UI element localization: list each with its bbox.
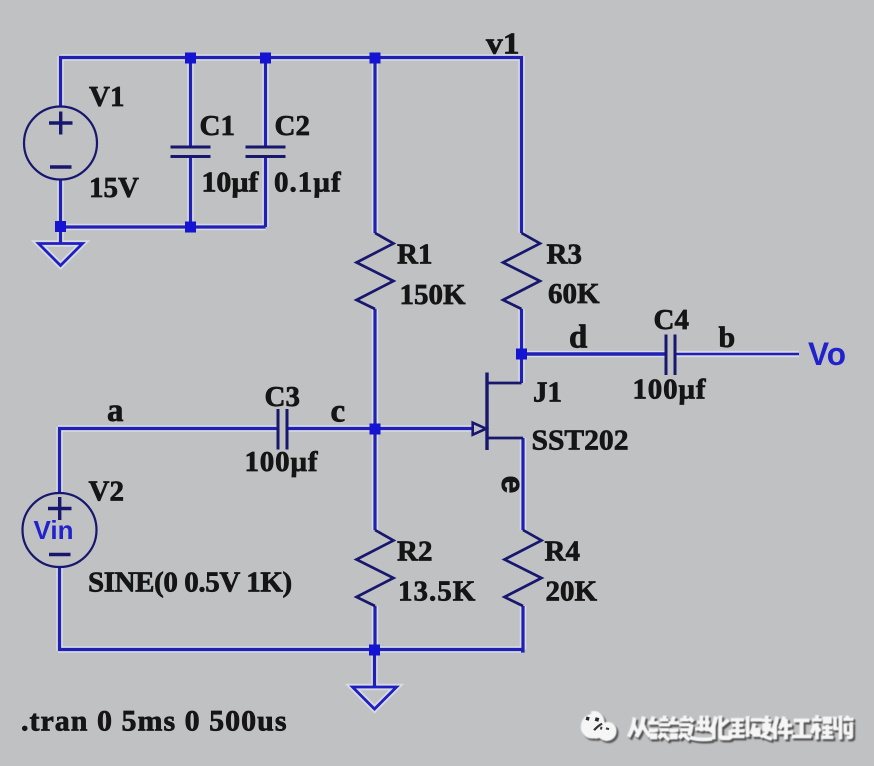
svg-text:150K: 150K — [400, 279, 467, 311]
svg-text:C3: C3 — [265, 381, 300, 413]
svg-text:C4: C4 — [654, 304, 689, 336]
junction node V1 ground — [55, 221, 66, 232]
capacitor C3 — [278, 409, 287, 450]
wire C1 bottom lead — [189, 157, 192, 228]
svg-text:.tran 0 5ms 0 500us: .tran 0 5ms 0 500us — [21, 705, 288, 738]
svg-text:V1: V1 — [89, 81, 124, 113]
svg-text:d: d — [569, 320, 587, 356]
svg-text:100µf: 100µf — [245, 446, 319, 478]
junction node bottom ground — [369, 645, 380, 656]
svg-text:J1: J1 — [533, 377, 562, 409]
capacitor C4 — [666, 335, 675, 376]
wire halo — [39, 56, 800, 709]
svg-text:R4: R4 — [545, 536, 580, 568]
wire bottom ground stub — [373, 650, 376, 687]
wire R4 bottom to ground rail — [521, 606, 523, 651]
capacitor C2 — [246, 147, 286, 157]
svg-text:v1: v1 — [486, 26, 520, 61]
resistor R2 — [357, 530, 394, 606]
wire V1 top stub — [59, 56, 62, 107]
wire J1 drain vertical — [520, 354, 523, 383]
svg-text:60K: 60K — [548, 278, 600, 310]
wire C3 to node c — [288, 427, 375, 430]
junction node d — [516, 349, 527, 360]
junction node C1 bottom — [185, 222, 196, 233]
voltage source V2 — [23, 493, 97, 567]
wire V1 bottom stub to ground — [59, 179, 62, 243]
resistor R1 — [357, 233, 394, 309]
svg-text:C2: C2 — [275, 110, 310, 142]
watermark text 从猿猿进化到硬件工程师 — [628, 716, 855, 744]
svg-text:e: e — [495, 476, 531, 494]
wire C2 bottom lead — [264, 157, 267, 228]
wire R3 bottom to node d — [520, 309, 523, 354]
wire C4 to Vo — [677, 353, 800, 356]
wire top rail v1 net — [61, 56, 522, 59]
wire V2 bottom stub — [58, 567, 61, 651]
wire node c to R2 — [373, 429, 376, 530]
wire v1 right drop to R3 — [520, 56, 523, 233]
junction node c — [370, 424, 381, 435]
svg-text:SST202: SST202 — [532, 425, 629, 457]
ground bottom — [353, 687, 397, 709]
svg-text:C1: C1 — [200, 110, 235, 142]
svg-text:R1: R1 — [397, 239, 432, 271]
wire V2 top stub — [58, 427, 61, 493]
svg-text:Vo: Vo — [808, 336, 846, 372]
wire capacitor bottom rail — [61, 225, 266, 228]
ground under V1 — [39, 244, 83, 266]
svg-text:13.5K: 13.5K — [398, 576, 476, 608]
wire node d to C4 — [522, 352, 666, 355]
svg-text:V2: V2 — [89, 476, 124, 508]
wire node a horizontal to C3 — [58, 427, 277, 430]
watermark logo icon — [581, 711, 619, 743]
voltage source V1 — [24, 107, 97, 180]
wire C2 top lead — [264, 58, 267, 148]
capacitor C1 — [171, 147, 211, 157]
svg-text:R2: R2 — [397, 536, 432, 568]
svg-text:c: c — [331, 394, 346, 430]
junction node top C2 — [260, 53, 271, 64]
svg-text:20K: 20K — [546, 576, 598, 608]
svg-text:100µf: 100µf — [633, 374, 707, 406]
svg-text:15V: 15V — [89, 172, 139, 204]
resistor R4 — [505, 530, 542, 606]
svg-text:R3: R3 — [547, 239, 582, 271]
svg-text:a: a — [107, 393, 124, 429]
svg-text:SINE(0 0.5V 1K): SINE(0 0.5V 1K) — [88, 567, 292, 599]
wire J1 source vertical to R4 — [521, 438, 524, 530]
svg-text:0.1µf: 0.1µf — [274, 167, 342, 199]
wire R1 top drop — [373, 58, 376, 234]
transistor J1 JFET — [473, 373, 523, 451]
wire bottom ground rail — [58, 648, 523, 651]
wire gate lead from node c — [375, 427, 472, 430]
junction node top C1 — [185, 53, 196, 64]
svg-text:10µf: 10µf — [202, 168, 260, 199]
wire R1 bottom to node c — [373, 309, 376, 429]
wire C1 top lead — [189, 58, 192, 148]
svg-text:b: b — [719, 321, 736, 354]
junction node top R1 — [370, 53, 381, 64]
wire R2 bottom to ground rail — [373, 606, 376, 650]
resistor R3 — [503, 233, 540, 309]
svg-text:Vin: Vin — [34, 515, 74, 545]
